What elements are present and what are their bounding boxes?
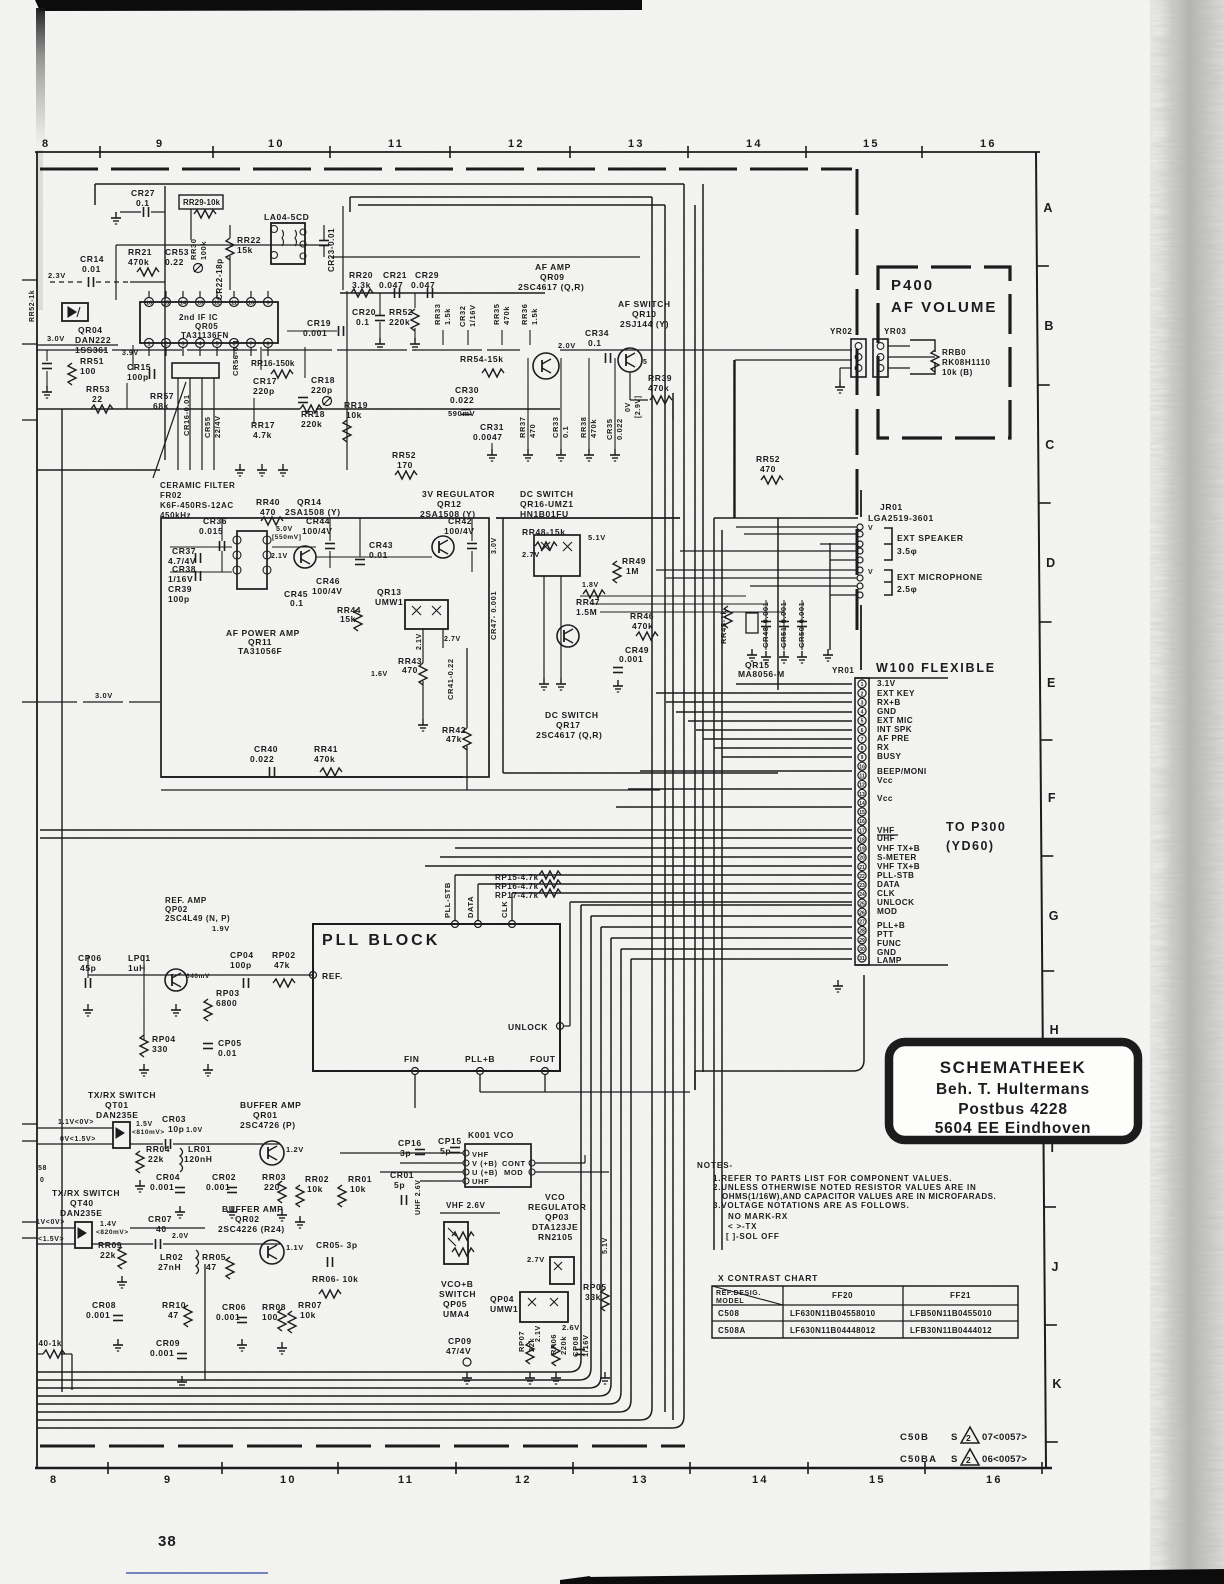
svg-text:CR44: CR44 — [306, 516, 330, 526]
svg-text:4.7k: 4.7k — [253, 430, 272, 440]
svg-text:CR41-0.22: CR41-0.22 — [446, 658, 455, 700]
svg-text:CR42: CR42 — [448, 516, 472, 526]
svg-text:15k: 15k — [237, 245, 253, 255]
svg-text:EXT MICROPHONE: EXT MICROPHONE — [897, 572, 983, 582]
svg-text:6800: 6800 — [216, 998, 237, 1008]
svg-text:QR13: QR13 — [377, 587, 402, 597]
svg-text:RR16-150k: RR16-150k — [251, 359, 295, 368]
svg-text:RP04: RP04 — [152, 1034, 176, 1044]
svg-text:2SC4226 (R24): 2SC4226 (R24) — [218, 1224, 285, 1234]
svg-text:RR04: RR04 — [146, 1144, 170, 1154]
svg-text:CR06: CR06 — [222, 1302, 246, 1312]
svg-text:RR05: RR05 — [202, 1252, 226, 1262]
svg-text:CERAMIC FILTER: CERAMIC FILTER — [160, 481, 235, 490]
svg-text:22: 22 — [92, 394, 103, 404]
svg-text:QT01: QT01 — [105, 1100, 129, 1110]
svg-text:470k: 470k — [632, 621, 653, 631]
svg-text:PLL-STB: PLL-STB — [877, 871, 914, 880]
svg-text:CR20: CR20 — [352, 307, 376, 317]
svg-text:CP09: CP09 — [448, 1336, 472, 1346]
svg-text:47k: 47k — [446, 734, 462, 744]
svg-text:2SJ144 (Y): 2SJ144 (Y) — [620, 319, 669, 329]
svg-text:C508A: C508A — [718, 1326, 746, 1335]
svg-text:UMA4: UMA4 — [443, 1309, 470, 1319]
svg-text:470k: 470k — [502, 306, 511, 325]
svg-text:RP03: RP03 — [216, 988, 240, 998]
svg-text:HN1B01FU: HN1B01FU — [520, 509, 569, 519]
svg-text:CR19: CR19 — [307, 318, 331, 328]
svg-text:17: 17 — [859, 828, 865, 834]
svg-text:QP05: QP05 — [443, 1299, 467, 1309]
svg-text:2.6V: 2.6V — [562, 1323, 580, 1332]
svg-text:11: 11 — [231, 301, 237, 307]
svg-text:RP07: RP07 — [517, 1331, 526, 1352]
svg-text:LFB30N11B0444012: LFB30N11B0444012 — [910, 1326, 992, 1335]
svg-text:22/4V: 22/4V — [213, 415, 222, 438]
svg-text:0.001: 0.001 — [150, 1348, 174, 1358]
svg-text:1uH: 1uH — [128, 963, 146, 973]
svg-text:2.7V: 2.7V — [527, 1255, 545, 1264]
svg-text:CR03: CR03 — [162, 1114, 186, 1124]
svg-text:3.9V: 3.9V — [122, 350, 139, 357]
svg-text:QR16-UMZ1: QR16-UMZ1 — [520, 499, 574, 509]
svg-text:VCO: VCO — [545, 1192, 565, 1202]
svg-text:11: 11 — [859, 774, 865, 780]
svg-text:CR33: CR33 — [551, 416, 560, 438]
svg-text:0.1: 0.1 — [588, 338, 602, 348]
svg-text:0V: 0V — [625, 402, 632, 412]
svg-text:G: G — [1049, 909, 1059, 923]
svg-text:INT SPK: INT SPK — [877, 725, 912, 734]
svg-text:22k: 22k — [148, 1154, 164, 1164]
svg-text:PLL+B: PLL+B — [465, 1054, 495, 1064]
svg-text:11: 11 — [398, 1474, 414, 1486]
svg-text:22: 22 — [859, 874, 865, 880]
svg-text:REF. AMP: REF. AMP — [165, 896, 207, 905]
svg-text:10k: 10k — [307, 1184, 323, 1194]
svg-text:5p: 5p — [394, 1180, 405, 1190]
svg-text:TA31056F: TA31056F — [238, 646, 282, 656]
svg-text:0.001: 0.001 — [216, 1312, 240, 1322]
svg-text:15: 15 — [869, 1474, 886, 1486]
svg-text:5.1V: 5.1V — [602, 1237, 609, 1254]
svg-text:RR57: RR57 — [150, 391, 174, 401]
svg-text:CR53: CR53 — [165, 247, 189, 257]
svg-text:RR47: RR47 — [576, 597, 600, 607]
svg-text:1.5M: 1.5M — [576, 607, 597, 617]
svg-text:LAMP: LAMP — [877, 956, 902, 965]
svg-text:RR52-1k: RR52-1k — [29, 290, 36, 322]
svg-text:CR07: CR07 — [148, 1214, 172, 1224]
svg-text:12: 12 — [515, 1474, 532, 1486]
svg-text:VHF TX+B: VHF TX+B — [877, 844, 920, 853]
svg-text:S-METER: S-METER — [877, 853, 917, 862]
svg-text:10: 10 — [280, 1474, 297, 1486]
svg-text:LFB50N11B0455010: LFB50N11B0455010 — [910, 1309, 992, 1318]
svg-text:RR20: RR20 — [349, 270, 373, 280]
svg-text:CR16-0.01: CR16-0.01 — [182, 394, 191, 436]
svg-text:9: 9 — [156, 138, 164, 150]
svg-text:RR40: RR40 — [256, 497, 280, 507]
svg-text:220k: 220k — [559, 1336, 568, 1355]
svg-text:47: 47 — [206, 1262, 217, 1272]
svg-text:10k: 10k — [350, 1184, 366, 1194]
svg-text:SWITCH: SWITCH — [439, 1289, 476, 1299]
svg-text:QR09: QR09 — [540, 272, 565, 282]
svg-text:2: 2 — [861, 691, 864, 697]
svg-text:330: 330 — [152, 1044, 168, 1054]
svg-text:14: 14 — [752, 1474, 769, 1486]
svg-text:RR52: RR52 — [756, 454, 780, 464]
svg-text:CR35: CR35 — [605, 418, 614, 440]
svg-text:3.5φ: 3.5φ — [897, 546, 917, 556]
svg-text:13: 13 — [632, 1474, 649, 1486]
svg-text:CR31: CR31 — [480, 422, 504, 432]
svg-text:2.7V: 2.7V — [522, 550, 540, 559]
svg-text:1.5k: 1.5k — [443, 308, 452, 325]
svg-text:RP15-4.7k: RP15-4.7k — [495, 873, 539, 882]
svg-text:26: 26 — [859, 910, 865, 916]
svg-text:1/16V: 1/16V — [168, 574, 193, 584]
svg-text:GND: GND — [877, 707, 896, 716]
svg-text:LF630N11B04448012: LF630N11B04448012 — [790, 1326, 876, 1335]
svg-text:TX/RX SWITCH: TX/RX SWITCH — [52, 1188, 120, 1198]
svg-text:10: 10 — [859, 764, 865, 770]
svg-text:REGULATOR: REGULATOR — [528, 1202, 586, 1212]
svg-text:7: 7 — [249, 342, 252, 348]
svg-text:8: 8 — [50, 1474, 58, 1486]
svg-text:V: V — [868, 569, 873, 576]
svg-text:12: 12 — [214, 301, 220, 307]
svg-text:PTT: PTT — [877, 930, 894, 939]
svg-text:1.8V: 1.8V — [582, 582, 599, 589]
svg-text:FF21: FF21 — [950, 1291, 971, 1300]
svg-text:PLL+B: PLL+B — [877, 921, 905, 930]
svg-text:2: 2 — [966, 1455, 971, 1465]
svg-text:CR18: CR18 — [311, 375, 335, 385]
svg-text:28: 28 — [859, 929, 865, 935]
svg-text:< >-TX: < >-TX — [728, 1222, 757, 1231]
svg-text:5604 EE Eindhoven: 5604 EE Eindhoven — [935, 1120, 1092, 1137]
svg-text:QR02: QR02 — [235, 1214, 260, 1224]
svg-text:5p: 5p — [440, 1146, 451, 1156]
svg-text:FUNC: FUNC — [877, 939, 901, 948]
svg-text:EXT SPEAKER: EXT SPEAKER — [897, 533, 964, 543]
svg-text:8: 8 — [42, 138, 50, 150]
svg-text:VCO+B: VCO+B — [441, 1279, 474, 1289]
svg-text:CR29: CR29 — [415, 270, 439, 280]
svg-text:1.4V: 1.4V — [100, 1221, 117, 1228]
svg-text:YR02: YR02 — [830, 327, 852, 336]
svg-text:QP04: QP04 — [490, 1294, 514, 1304]
svg-text:2.5φ: 2.5φ — [897, 584, 917, 594]
svg-text:[550mV]: [550mV] — [272, 534, 302, 541]
svg-text:QP02: QP02 — [165, 905, 188, 914]
svg-text:1M: 1M — [626, 566, 639, 576]
svg-text:470: 470 — [760, 464, 776, 474]
svg-text:PLL-STB: PLL-STB — [443, 882, 452, 918]
svg-text:VHF TX+B: VHF TX+B — [877, 862, 920, 871]
svg-text:0.1: 0.1 — [356, 317, 370, 327]
svg-text:3.0V: 3.0V — [47, 334, 65, 343]
svg-text:1: 1 — [147, 342, 150, 348]
svg-text:10: 10 — [248, 301, 254, 307]
svg-text:18: 18 — [859, 837, 865, 843]
svg-text:RR30: RR30 — [189, 238, 198, 260]
svg-text:10k: 10k — [300, 1310, 316, 1320]
svg-text:JR01: JR01 — [880, 502, 903, 512]
svg-text:C50B: C50B — [900, 1432, 929, 1443]
svg-text:MODEL: MODEL — [716, 1298, 744, 1305]
svg-text:16: 16 — [980, 138, 997, 150]
svg-text:RK08H1110: RK08H1110 — [942, 358, 991, 367]
svg-text:AF AMP: AF AMP — [535, 262, 571, 272]
svg-text:1.1V: 1.1V — [286, 1243, 304, 1252]
svg-text:220k: 220k — [301, 419, 322, 429]
svg-text:2.7V: 2.7V — [444, 636, 461, 643]
svg-text:15: 15 — [163, 301, 169, 307]
svg-text:DTA123JE: DTA123JE — [532, 1222, 578, 1232]
svg-text:S: S — [951, 1454, 958, 1465]
svg-text:2.1V: 2.1V — [271, 553, 288, 560]
svg-text:3.0V: 3.0V — [491, 537, 498, 554]
svg-text:1.5V: 1.5V — [136, 1121, 153, 1128]
svg-text:5: 5 — [643, 359, 648, 366]
svg-text:RR52: RR52 — [389, 307, 413, 317]
svg-text:FF20: FF20 — [832, 1291, 853, 1300]
svg-text:QR17: QR17 — [556, 720, 581, 730]
svg-text:TX/RX SWITCH: TX/RX SWITCH — [88, 1090, 156, 1100]
svg-text:RP16-4.7k: RP16-4.7k — [495, 882, 539, 891]
svg-text:QR10: QR10 — [632, 309, 657, 319]
svg-text:0.01: 0.01 — [82, 264, 101, 274]
svg-text:0.1: 0.1 — [136, 198, 150, 208]
svg-text:CR17: CR17 — [253, 376, 277, 386]
svg-text:SCHEMATHEEK: SCHEMATHEEK — [940, 1058, 1087, 1077]
svg-text:DC SWITCH: DC SWITCH — [520, 489, 574, 499]
svg-text:CR14: CR14 — [80, 254, 104, 264]
svg-text:5: 5 — [861, 719, 864, 725]
svg-text:RR03: RR03 — [262, 1172, 286, 1182]
svg-text:22k: 22k — [100, 1250, 116, 1260]
svg-text:21: 21 — [859, 865, 865, 871]
svg-text:<1.5V>: <1.5V> — [38, 1236, 64, 1243]
svg-text:TA31136FN: TA31136FN — [181, 331, 229, 340]
svg-text:V (+B): V (+B) — [472, 1159, 497, 1168]
svg-text:3: 3 — [861, 700, 864, 706]
svg-text:QR04: QR04 — [78, 325, 103, 335]
svg-text:V: V — [868, 525, 873, 532]
svg-text:CONT: CONT — [502, 1159, 526, 1168]
svg-text:LR02: LR02 — [160, 1252, 183, 1262]
svg-text:0.001: 0.001 — [206, 1182, 230, 1192]
svg-text:100p: 100p — [230, 960, 252, 970]
svg-text:'40-1k: '40-1k — [36, 1339, 62, 1348]
svg-text:RP02: RP02 — [272, 950, 296, 960]
svg-text:LA04-5CD: LA04-5CD — [264, 212, 309, 222]
svg-text:13: 13 — [197, 301, 203, 307]
svg-text:170: 170 — [397, 460, 413, 470]
svg-text:[2.9V]: [2.9V] — [635, 395, 642, 418]
svg-text:DAN235E: DAN235E — [60, 1208, 102, 1218]
svg-text:CP06: CP06 — [78, 953, 102, 963]
svg-text:YR03: YR03 — [884, 327, 906, 336]
svg-text:CR08: CR08 — [92, 1300, 116, 1310]
svg-text:0.001: 0.001 — [303, 328, 327, 338]
svg-text:AF PRE: AF PRE — [877, 734, 910, 743]
svg-text:14: 14 — [859, 801, 865, 807]
svg-text:BUFFER AMP: BUFFER AMP — [222, 1204, 283, 1214]
svg-text:0.001: 0.001 — [150, 1182, 174, 1192]
svg-text:40: 40 — [156, 1224, 167, 1234]
svg-text:MOD: MOD — [504, 1168, 523, 1177]
svg-text:38: 38 — [158, 1533, 177, 1550]
svg-text:2SC4617 (Q,R): 2SC4617 (Q,R) — [518, 282, 584, 292]
svg-text:0.022: 0.022 — [450, 395, 474, 405]
svg-text:RR09: RR09 — [98, 1240, 122, 1250]
svg-text:RR52: RR52 — [392, 450, 416, 460]
svg-text:RR21: RR21 — [128, 247, 152, 257]
svg-text:1.1V<0V>: 1.1V<0V> — [58, 1119, 94, 1126]
svg-text:47: 47 — [168, 1310, 179, 1320]
svg-text:LR01: LR01 — [188, 1144, 211, 1154]
svg-text:BUSY: BUSY — [877, 752, 901, 761]
svg-text:24: 24 — [859, 892, 865, 898]
svg-text:AF SWITCH: AF SWITCH — [618, 299, 671, 309]
svg-text:RR38: RR38 — [579, 416, 588, 438]
svg-text:30: 30 — [859, 947, 865, 953]
svg-text:CR55: CR55 — [203, 416, 212, 438]
svg-text:UNLOCK: UNLOCK — [508, 1022, 548, 1032]
svg-text:D: D — [1046, 556, 1055, 570]
svg-text:Vcc: Vcc — [877, 776, 893, 785]
svg-text:2.1V: 2.1V — [416, 633, 423, 650]
svg-text:U (+B): U (+B) — [472, 1168, 498, 1177]
svg-text:100: 100 — [262, 1312, 278, 1322]
svg-text:RP06: RP06 — [549, 1334, 558, 1355]
svg-text:15k: 15k — [340, 614, 356, 624]
svg-text:CP15: CP15 — [438, 1136, 462, 1146]
svg-text:RR01: RR01 — [348, 1174, 372, 1184]
svg-text:10: 10 — [268, 138, 285, 150]
svg-text:0.022: 0.022 — [615, 418, 624, 440]
svg-text:DAN222: DAN222 — [75, 335, 111, 345]
svg-text:FOUT: FOUT — [530, 1054, 556, 1064]
svg-text:W100 FLEXIBLE: W100 FLEXIBLE — [876, 661, 996, 675]
svg-text:9: 9 — [164, 1474, 172, 1486]
svg-text:RN2105: RN2105 — [538, 1232, 573, 1242]
svg-text:3.0V: 3.0V — [95, 691, 113, 700]
svg-text:47k: 47k — [274, 960, 290, 970]
svg-text:RR17: RR17 — [251, 420, 275, 430]
svg-text:10k: 10k — [346, 410, 362, 420]
svg-text:0.01: 0.01 — [218, 1048, 237, 1058]
svg-text:0.22: 0.22 — [165, 257, 184, 267]
svg-text:TO P300: TO P300 — [946, 820, 1006, 834]
svg-text:C508: C508 — [718, 1309, 740, 1318]
svg-text:3.1V: 3.1V — [877, 679, 896, 688]
svg-text:100/4V: 100/4V — [312, 586, 343, 596]
svg-text:QR01: QR01 — [253, 1110, 278, 1120]
svg-text:UMW1: UMW1 — [490, 1304, 518, 1314]
svg-text:RR33: RR33 — [433, 303, 442, 325]
svg-text:CR30: CR30 — [455, 385, 479, 395]
svg-text:2.0V: 2.0V — [558, 341, 576, 350]
svg-text:58: 58 — [38, 1165, 47, 1172]
svg-text:590mV: 590mV — [448, 409, 475, 418]
svg-text:25: 25 — [859, 901, 865, 907]
svg-text:E: E — [1047, 676, 1055, 690]
svg-text:(YD60): (YD60) — [946, 839, 995, 853]
svg-text:RRB0: RRB0 — [942, 348, 966, 357]
svg-text:RR22: RR22 — [237, 235, 261, 245]
svg-text:1.9V: 1.9V — [212, 924, 230, 933]
svg-text:100p: 100p — [127, 372, 149, 382]
svg-text:EXT MIC: EXT MIC — [877, 716, 913, 725]
svg-text:1.6V: 1.6V — [371, 671, 388, 678]
svg-text:23: 23 — [859, 883, 865, 889]
svg-text:J: J — [1051, 1260, 1058, 1274]
svg-text:29: 29 — [859, 938, 865, 944]
svg-text:RX: RX — [877, 743, 889, 752]
svg-text:NOTES-: NOTES- — [697, 1161, 733, 1170]
svg-text:RR37: RR37 — [518, 416, 527, 438]
svg-text:1.0V: 1.0V — [186, 1127, 203, 1134]
svg-text:REF.DESIG.: REF.DESIG. — [716, 1290, 761, 1297]
svg-text:DC SWITCH: DC SWITCH — [545, 710, 599, 720]
svg-text:27nH: 27nH — [158, 1262, 181, 1272]
svg-text:14: 14 — [746, 138, 763, 150]
svg-text:K6F-450RS-12AC: K6F-450RS-12AC — [160, 501, 234, 510]
svg-text:S: S — [951, 1432, 958, 1443]
svg-text:K: K — [1052, 1377, 1061, 1391]
svg-text:AF VOLUME: AF VOLUME — [891, 299, 997, 316]
svg-text:FR02: FR02 — [160, 491, 182, 500]
svg-text:6: 6 — [861, 728, 864, 734]
svg-text:100: 100 — [80, 366, 96, 376]
svg-text:2.1V: 2.1V — [535, 1325, 542, 1342]
svg-text:470k: 470k — [314, 754, 335, 764]
svg-text:RR53: RR53 — [86, 384, 110, 394]
svg-text:0.001: 0.001 — [619, 654, 643, 664]
svg-text:2SC4726 (P): 2SC4726 (P) — [240, 1120, 296, 1130]
svg-text:PLL BLOCK: PLL BLOCK — [322, 932, 440, 949]
svg-text:<820mV>: <820mV> — [96, 1229, 129, 1236]
svg-text:RR36: RR36 — [520, 303, 529, 325]
svg-text:1: 1 — [861, 682, 864, 688]
svg-text:Postbus 4228: Postbus 4228 — [958, 1101, 1068, 1118]
svg-text:LF630N11B04558010: LF630N11B04558010 — [790, 1309, 876, 1318]
svg-text:RR35: RR35 — [492, 303, 501, 325]
svg-text:12: 12 — [859, 783, 865, 789]
svg-text:2: 2 — [966, 1433, 971, 1443]
svg-text:1V<0V>: 1V<0V> — [36, 1219, 65, 1226]
svg-text:12: 12 — [508, 138, 525, 150]
svg-text:RR07: RR07 — [298, 1300, 322, 1310]
svg-text:19: 19 — [859, 847, 865, 853]
svg-text:K001 VCO: K001 VCO — [468, 1130, 514, 1140]
svg-text:MOD: MOD — [877, 907, 897, 916]
svg-text:F: F — [1048, 791, 1056, 805]
svg-text:CP16: CP16 — [398, 1138, 422, 1148]
svg-text:A: A — [1043, 201, 1052, 215]
svg-text:DAN235E: DAN235E — [96, 1110, 138, 1120]
svg-text:LP01: LP01 — [128, 953, 151, 963]
svg-text:RR39: RR39 — [648, 373, 672, 383]
svg-text:CR40: CR40 — [254, 744, 278, 754]
svg-text:UHF 2.6V: UHF 2.6V — [415, 1179, 422, 1215]
svg-text:0.1: 0.1 — [561, 426, 570, 438]
